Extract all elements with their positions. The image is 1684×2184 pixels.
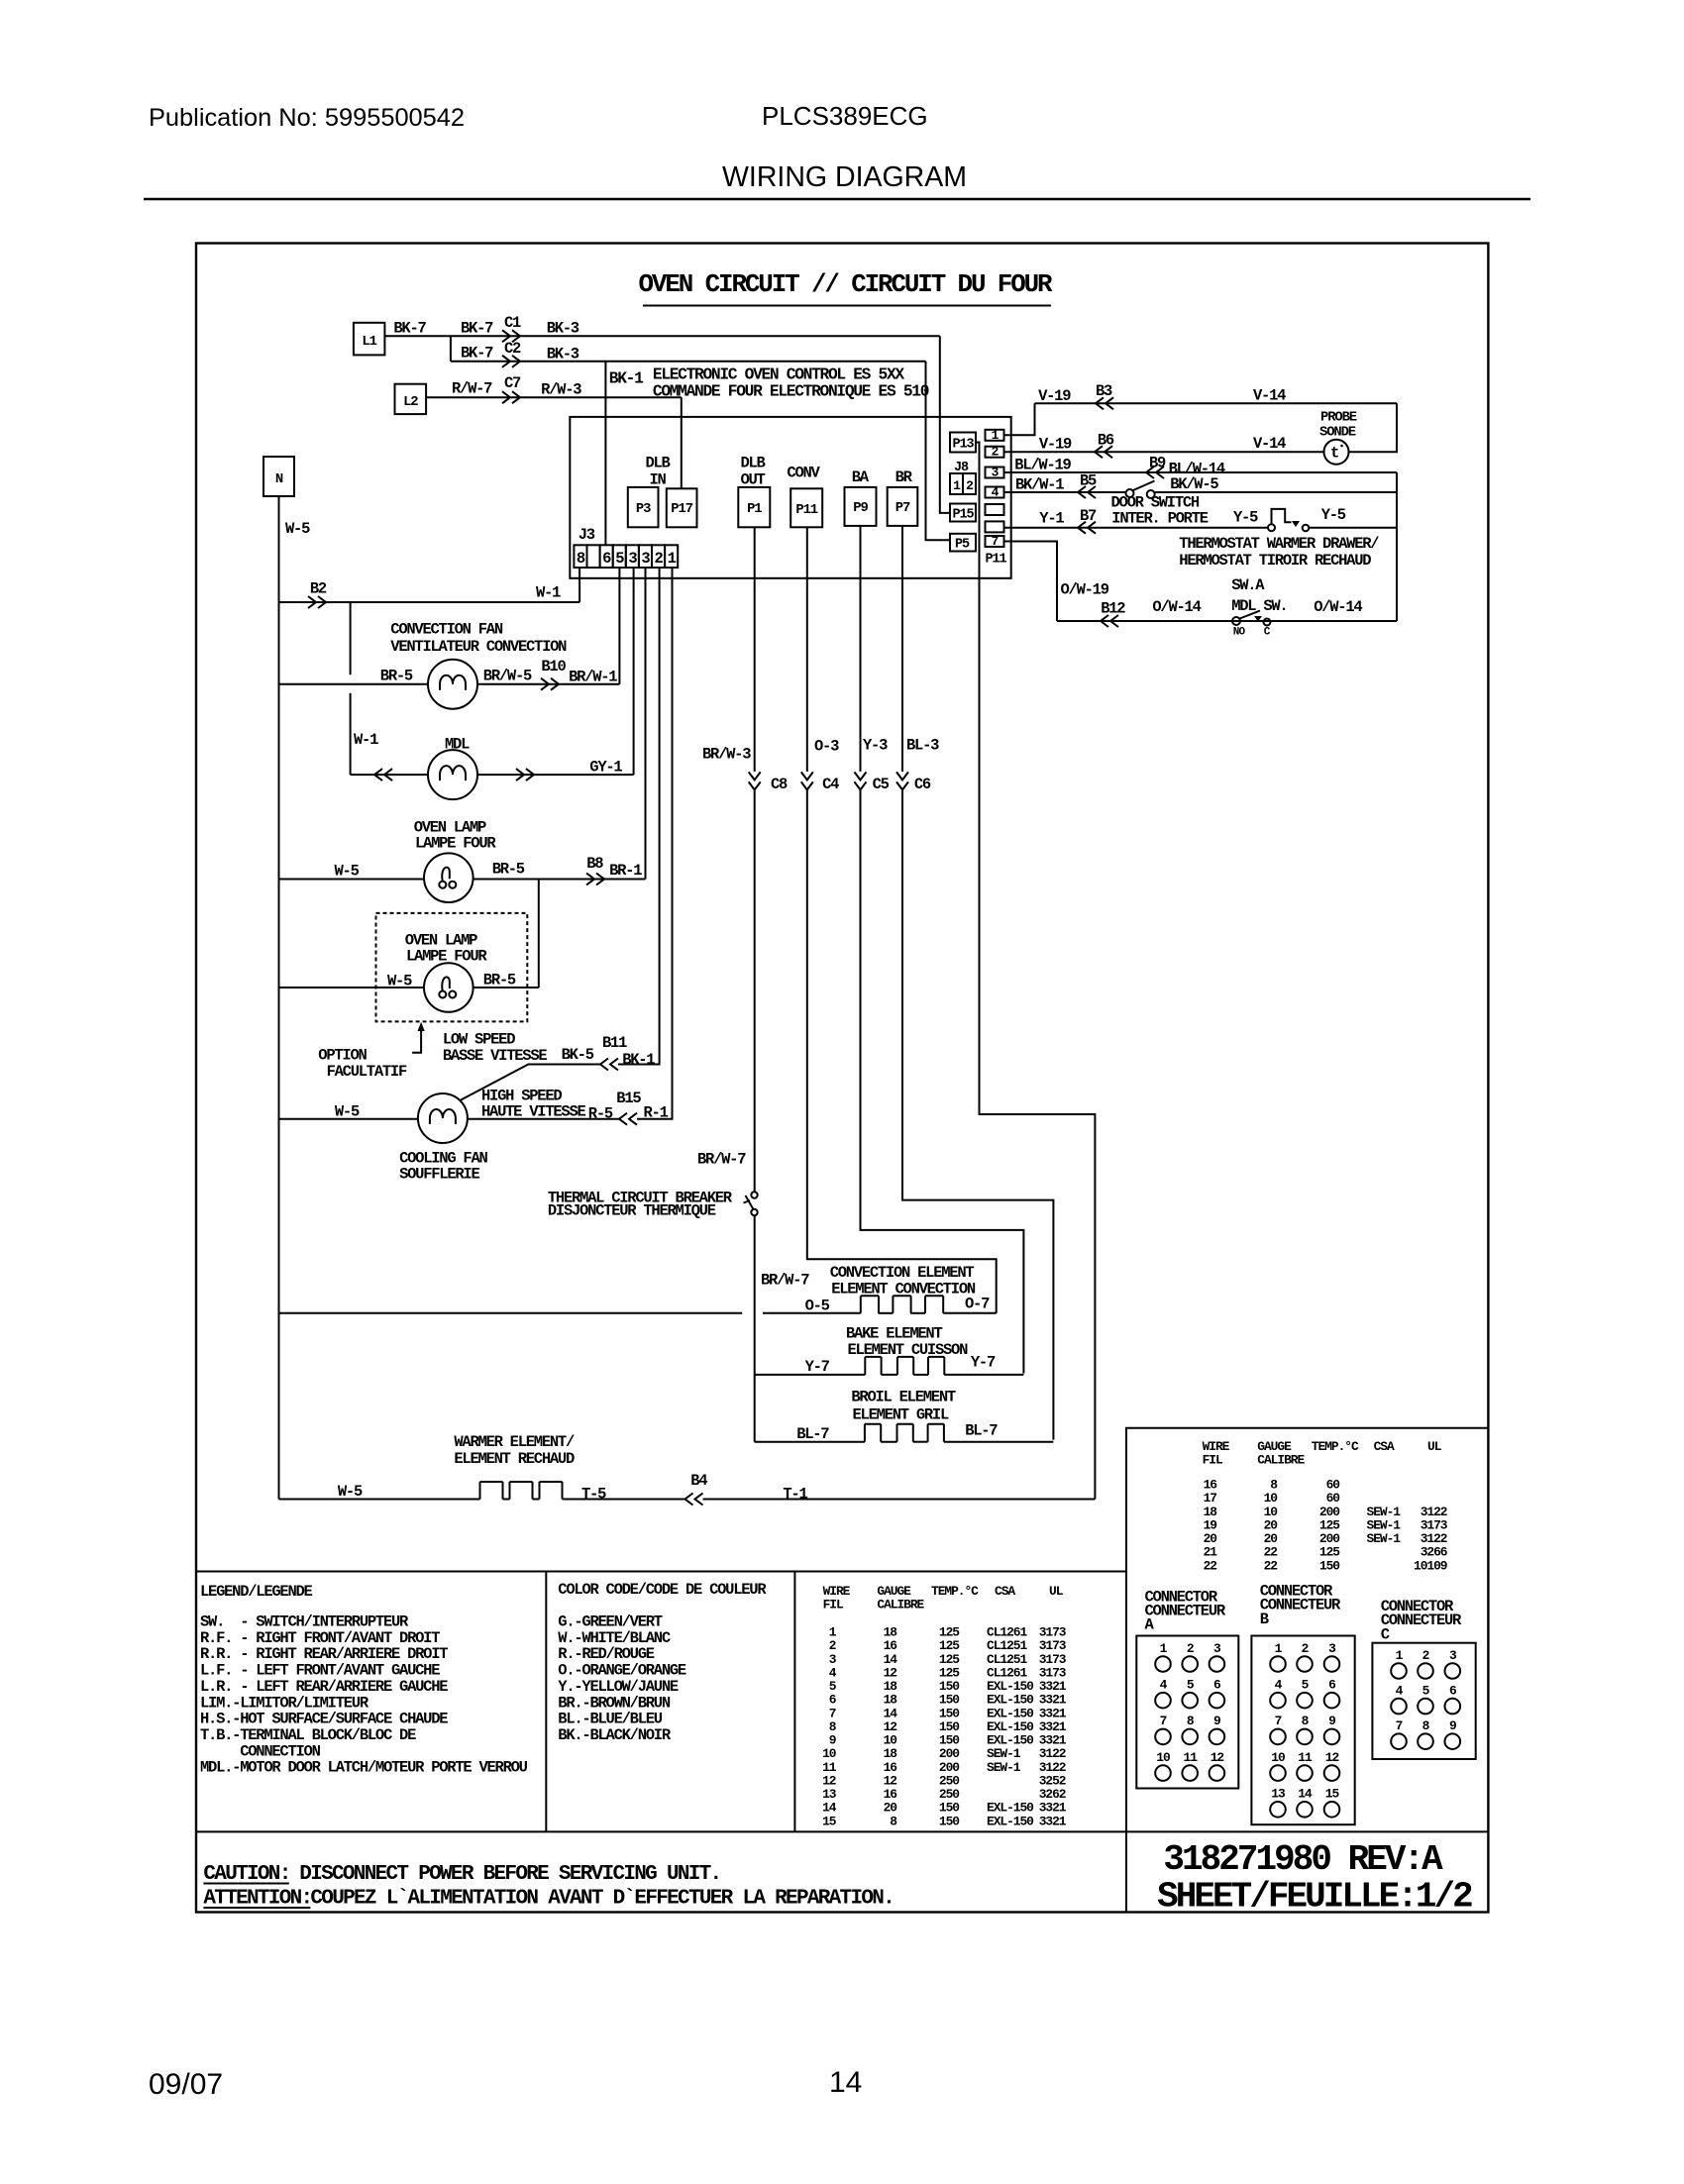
svg-text:318271980 REV:A: 318271980 REV:A [1163, 1839, 1443, 1880]
label BR/W-3 [702, 746, 751, 764]
label BAKE ELEMENT [846, 1325, 942, 1343]
svg-text:IN: IN [649, 471, 666, 489]
svg-text:10109: 10109 [1414, 1558, 1447, 1573]
label W-5 under N [285, 520, 310, 538]
svg-text:10: 10 [1271, 1750, 1285, 1765]
wire cooling fan to B15 [468, 1118, 619, 1120]
label V-14 (1) [1253, 387, 1286, 405]
svg-text:O/W-19: O/W-19 [1061, 581, 1109, 599]
wire P11 drop lower [807, 789, 997, 1312]
wire pin7 drop [1004, 542, 1058, 622]
wire low speed diagonal [461, 1065, 600, 1100]
label ELEMENT CUISSON [848, 1341, 969, 1359]
label BK-7 (3) [461, 345, 493, 363]
wire table 2 headers [1203, 1439, 1442, 1468]
svg-text:BR-1: BR-1 [609, 862, 642, 880]
svg-text:Publication No: 5995500542: Publication No: 5995500542 [149, 104, 465, 132]
footer date [149, 2068, 223, 2101]
svg-text:ELEMENT RECHAUD: ELEMENT RECHAUD [454, 1450, 575, 1468]
wire convection element left [763, 1312, 861, 1314]
svg-text:22: 22 [1264, 1558, 1278, 1573]
svg-text:C8: C8 [771, 776, 788, 793]
svg-text:CONNECTEUR: CONNECTEUR [1381, 1612, 1462, 1629]
svg-text:10: 10 [1156, 1750, 1170, 1765]
svg-text:B5: B5 [1080, 472, 1097, 490]
label DLB OUT [740, 455, 765, 489]
connector C7 [502, 374, 521, 403]
label BR-1 [609, 862, 642, 880]
label V-19 (2) [1039, 436, 1072, 454]
label O-5 [805, 1298, 830, 1315]
svg-text:W-5: W-5 [387, 973, 412, 990]
svg-text:7: 7 [1275, 1714, 1282, 1728]
label BL/W-14 [1169, 461, 1225, 478]
svg-text:CONVECTION FAN: CONVECTION FAN [390, 621, 503, 639]
svg-text:V-14: V-14 [1253, 387, 1286, 405]
svg-text:P1: P1 [747, 501, 762, 517]
label NO [1233, 627, 1246, 639]
label P11 [986, 553, 1007, 568]
wire bake element left [755, 1374, 866, 1376]
label BK/W-5 [1170, 475, 1218, 493]
svg-text:V-14: V-14 [1253, 435, 1286, 453]
wire pin1 to V-19 riser [1004, 403, 1035, 435]
wire BK-1 drop to J3-6 [604, 362, 606, 546]
wire W-5 to cooling fan [279, 1118, 419, 1120]
label CONNECTOR C [1381, 1598, 1462, 1643]
wire junction drop L1 to C2 line [450, 336, 452, 362]
wire P1 drop upper [754, 527, 756, 772]
label B2 [310, 580, 327, 598]
plug P17 [667, 488, 697, 527]
svg-text:O.-ORANGE/ORANGE: O.-ORANGE/ORANGE [558, 1662, 686, 1680]
wire table 2 rows [1204, 1478, 1448, 1574]
svg-text:P11: P11 [986, 553, 1007, 568]
label B4 [690, 1472, 707, 1490]
thermal circuit breaker CB1 [744, 1192, 758, 1215]
svg-text:3321: 3321 [1039, 1814, 1067, 1828]
svg-text:LOW SPEED: LOW SPEED [443, 1031, 515, 1049]
svg-text:9: 9 [1328, 1714, 1335, 1728]
svg-text:INTER. PORTE: INTER. PORTE [1111, 510, 1208, 528]
svg-text:Y-5: Y-5 [1233, 509, 1258, 527]
svg-text:O-3: O-3 [814, 738, 839, 756]
circuit title [639, 269, 1054, 299]
svg-text:BK/W-1: BK/W-1 [1015, 476, 1064, 494]
svg-text:14: 14 [829, 2066, 862, 2099]
wire convection element right [943, 1312, 997, 1314]
svg-text:B2: B2 [310, 580, 327, 598]
legend entries [200, 1613, 528, 1777]
svg-text:7: 7 [992, 534, 999, 549]
label CONVECTION FAN [390, 621, 503, 639]
motor MDL [428, 750, 477, 799]
svg-text:OUT: OUT [740, 471, 765, 489]
svg-text:R-5: R-5 [588, 1105, 613, 1123]
svg-text:W-1: W-1 [536, 584, 561, 602]
svg-text:CONNECTEUR: CONNECTEUR [1145, 1603, 1226, 1620]
svg-text:TEMP.°C: TEMP.°C [931, 1584, 979, 1599]
label SOUFFLERIE [399, 1166, 479, 1184]
label Y-7 right [971, 1354, 996, 1372]
svg-text:6: 6 [602, 550, 611, 568]
svg-text:BK-3: BK-3 [547, 320, 579, 338]
svg-text:12: 12 [1210, 1750, 1224, 1765]
label LOW SPEED [443, 1031, 515, 1049]
svg-text:DLB: DLB [645, 455, 670, 472]
label CAUTION line [203, 1863, 720, 1886]
label MDL SW. [1231, 597, 1287, 615]
svg-text:C: C [1381, 1625, 1390, 1643]
label O/W-14 right [1314, 598, 1362, 616]
wire P11 drop [806, 527, 808, 772]
label electronic oven control line1 [653, 365, 905, 384]
svg-text:PLCS389ECG: PLCS389ECG [762, 101, 928, 131]
label ELEMENT GRIL [853, 1406, 949, 1424]
wire T-1 run [703, 1499, 1096, 1501]
svg-text:BR-5: BR-5 [492, 861, 525, 879]
svg-text:THERMOSTAT WARMER DRAWER/: THERMOSTAT WARMER DRAWER/ [1179, 535, 1379, 553]
svg-text:SW.A: SW.A [1231, 576, 1265, 594]
svg-text:SOUFFLERIE: SOUFFLERIE [399, 1166, 479, 1184]
wire W-5 to convection fan [279, 683, 429, 685]
wire lamp2 right [474, 987, 539, 988]
svg-text:C5: C5 [873, 776, 890, 793]
plug P11 [790, 488, 822, 527]
legend section bottom border [196, 1830, 1488, 1832]
svg-text:2: 2 [655, 550, 664, 568]
svg-text:P9: P9 [853, 500, 868, 516]
svg-text:J3: J3 [579, 526, 595, 544]
svg-text:8: 8 [577, 550, 585, 568]
wire door switch to right bus [1155, 491, 1397, 493]
label CONNECTOR B [1260, 1583, 1341, 1628]
svg-text:B9: B9 [1149, 455, 1166, 472]
page header title WIRING DIAGRAM [722, 161, 967, 193]
label W-5 cooling fan [335, 1103, 360, 1121]
oven lamp DS2 [424, 963, 474, 1012]
svg-text:B12: B12 [1101, 600, 1125, 618]
label T-1 [783, 1486, 807, 1504]
wire MDL right [477, 774, 634, 776]
label FACULTATIF [327, 1063, 407, 1081]
svg-text:FACULTATIF: FACULTATIF [327, 1063, 407, 1081]
wire P9 drop [860, 526, 862, 772]
svg-text:W-5: W-5 [335, 863, 360, 881]
svg-text:11: 11 [1184, 1750, 1199, 1765]
connector B11 [600, 1034, 627, 1071]
svg-text:7: 7 [1396, 1718, 1403, 1733]
svg-text:SEW-1: SEW-1 [1367, 1531, 1402, 1546]
label CONV [787, 465, 820, 482]
connector B4 [685, 1494, 703, 1506]
wire warmer to B4 [563, 1499, 685, 1501]
connector B12 [1101, 600, 1125, 628]
svg-text:B6: B6 [1098, 432, 1114, 450]
plug P7 [888, 487, 918, 526]
svg-text:P13: P13 [952, 438, 974, 453]
svg-text:1: 1 [668, 550, 677, 568]
svg-text:BA: BA [852, 468, 870, 486]
label R/W-3 [541, 381, 581, 399]
label V-19 (1) [1038, 387, 1071, 405]
convection fan motor M1 [428, 660, 477, 709]
plug P1 [738, 487, 770, 527]
label C [1264, 627, 1271, 639]
label DLB IN [645, 455, 670, 489]
svg-text:COUPEZ L`ALIMENTATION AVANT D`: COUPEZ L`ALIMENTATION AVANT D`EFFECTUER … [310, 1888, 894, 1911]
label T-5 [581, 1486, 606, 1504]
bake heating element [865, 1357, 944, 1375]
color/table divider [793, 1572, 795, 1832]
svg-text:15: 15 [822, 1814, 837, 1828]
label BR [895, 468, 913, 486]
connector B pin diagram [1251, 1636, 1354, 1825]
wire broil element right [944, 1441, 1054, 1443]
svg-text:B10: B10 [541, 658, 566, 676]
label CONVECTION ELEMENT [830, 1264, 975, 1282]
connector A pin diagram [1136, 1636, 1238, 1789]
svg-text:W-5: W-5 [335, 1103, 360, 1121]
svg-text:150: 150 [939, 1814, 959, 1828]
svg-text:LIM.-LIMITOR/LIMITEUR: LIM.-LIMITOR/LIMITEUR [200, 1694, 369, 1712]
legend section top border [196, 1571, 1126, 1573]
wire pin3 BL/W to right bus [1004, 471, 1398, 473]
svg-text:BR: BR [895, 468, 913, 486]
label BK-7 (2) [461, 320, 493, 338]
svg-text:W-5: W-5 [285, 520, 310, 538]
svg-text:BAKE ELEMENT: BAKE ELEMENT [846, 1325, 942, 1343]
svg-text:2: 2 [1187, 1641, 1194, 1656]
label BASSE VITESSE [443, 1047, 547, 1065]
page header model number [762, 101, 928, 131]
svg-text:B7: B7 [1080, 507, 1097, 525]
svg-text:2: 2 [1302, 1641, 1309, 1656]
label J3 [579, 526, 595, 544]
footer page number [829, 2066, 862, 2099]
label BK-1 [609, 369, 644, 388]
svg-text:FIL: FIL [823, 1598, 844, 1612]
cooling fan motor M2 [418, 1093, 468, 1143]
wire N bus vertical [278, 496, 280, 1500]
svg-text:BR/W-3: BR/W-3 [702, 746, 751, 764]
wire bake to broil drop [754, 1375, 756, 1442]
label HIGH SPEED [481, 1088, 562, 1105]
svg-text:CONNECTION: CONNECTION [200, 1742, 321, 1760]
broil heating element [865, 1424, 944, 1442]
connector C1 [502, 314, 521, 342]
svg-text:BK-7: BK-7 [393, 320, 426, 338]
svg-text:BK-7: BK-7 [461, 320, 493, 338]
label HAUTE VITESSE [481, 1103, 585, 1121]
label BR-5 lamp2 [483, 972, 516, 989]
svg-text:R.F. - RIGHT FRONT/AVANT DROIT: R.F. - RIGHT FRONT/AVANT DROIT [200, 1629, 440, 1647]
svg-text:5: 5 [615, 550, 624, 568]
label BA [852, 468, 870, 486]
label BL-7 left [796, 1425, 829, 1443]
wire B8 riser to J3-3b [645, 568, 647, 880]
svg-text:W-1: W-1 [354, 731, 378, 749]
svg-text:UL: UL [1427, 1439, 1442, 1454]
electronic oven control box U1 [570, 417, 1010, 578]
plug P3 [628, 487, 659, 527]
oven lamp DS1 [424, 853, 474, 902]
svg-text:BL-7: BL-7 [796, 1425, 829, 1443]
probe sensor [1324, 440, 1349, 465]
svg-text:DLB: DLB [740, 455, 765, 472]
svg-text:CONVECTION ELEMENT: CONVECTION ELEMENT [830, 1264, 975, 1282]
wire V-19/V-14 probe top [1035, 402, 1398, 404]
label BL-7 right [965, 1422, 998, 1440]
svg-text:BR-5: BR-5 [483, 972, 516, 989]
label BR/W-7 upper [697, 1151, 746, 1169]
main diagram border [196, 244, 1488, 1913]
connector C8 [749, 772, 788, 793]
svg-text:DISCONNECT POWER BEFORE SERVIC: DISCONNECT POWER BEFORE SERVICING UNIT. [299, 1863, 720, 1886]
svg-text:R/W-3: R/W-3 [541, 381, 581, 399]
label ELEMENT CONVECTION [831, 1281, 976, 1299]
svg-text:BR/W-1: BR/W-1 [569, 669, 617, 686]
connector B10 [541, 658, 566, 690]
svg-text:FIL: FIL [1203, 1453, 1223, 1468]
wire table 1 headers [823, 1584, 1064, 1612]
svg-text:13: 13 [1271, 1787, 1286, 1802]
wire MDL riser to J3-3a [633, 568, 635, 775]
svg-text:H.S.-HOT SURFACE/SURFACE CHAUD: H.S.-HOT SURFACE/SURFACE CHAUDE [200, 1711, 448, 1728]
svg-text:MDL.-MOTOR DOOR LATCH/MOTEUR P: MDL.-MOTOR DOOR LATCH/MOTEUR PORTE VERRO… [200, 1759, 528, 1777]
svg-text:BK-3: BK-3 [547, 346, 579, 364]
label BR-5 lamp1 [492, 861, 525, 879]
label sheet number [1157, 1877, 1472, 1918]
svg-text:MDL SW.: MDL SW. [1231, 597, 1287, 615]
wire B15 to J3-1 riser [637, 568, 673, 1119]
svg-text:L.R. - LEFT REAR/ARRIERE GAUCH: L.R. - LEFT REAR/ARRIERE GAUCHE [200, 1678, 448, 1696]
svg-text:BL/W-19: BL/W-19 [1014, 457, 1071, 474]
label BR/W-5 [483, 668, 532, 685]
svg-text:PROBE: PROBE [1320, 410, 1357, 426]
svg-text:BR.-BROWN/BRUN: BR.-BROWN/BRUN [558, 1694, 671, 1712]
connector B3 [1096, 382, 1113, 409]
wire P7 drop lower [902, 789, 1053, 1439]
svg-text:BK/W-5: BK/W-5 [1170, 475, 1218, 493]
svg-text:WARMER ELEMENT/: WARMER ELEMENT/ [454, 1433, 575, 1451]
svg-text:DISJONCTEUR THERMIQUE: DISJONCTEUR THERMIQUE [548, 1202, 716, 1220]
label BK-5 [562, 1046, 594, 1064]
svg-text:SONDE: SONDE [1319, 425, 1356, 441]
svg-text:CSA: CSA [995, 1584, 1015, 1599]
svg-text:SW. - SWITCH/INTERRUPTEUR: SW. - SWITCH/INTERRUPTEUR [200, 1613, 409, 1631]
header rule [144, 198, 1530, 200]
label electronic oven control line2 [653, 382, 929, 401]
terminal L1 [354, 323, 385, 356]
svg-text:R.R. - RIGHT REAR/ARRIERE DROI: R.R. - RIGHT REAR/ARRIERE DROIT [200, 1645, 448, 1663]
wire W-5 to oven lamp [279, 879, 425, 881]
wire MDL left [351, 774, 428, 776]
label W-5 lamp2 [387, 973, 412, 990]
label O/W-19 [1061, 581, 1109, 599]
connector C5 [855, 772, 890, 793]
wire W-5 to oven lamp 2 [279, 987, 425, 988]
label SW.A [1231, 576, 1265, 594]
svg-text:C2: C2 [504, 340, 521, 358]
legend/color divider [545, 1572, 547, 1832]
label BK/W-1 [1015, 476, 1064, 494]
svg-text:C1: C1 [504, 314, 521, 332]
svg-text:TEMP.°C: TEMP.°C [1312, 1439, 1359, 1454]
label Y-7 left [805, 1358, 830, 1376]
svg-text:C6: C6 [914, 776, 931, 793]
svg-text:B3: B3 [1096, 382, 1112, 400]
label BL-3 [906, 737, 939, 755]
wire probe right drop [1349, 403, 1398, 452]
svg-text:SHEET/FEUILLE:1/2: SHEET/FEUILLE:1/2 [1157, 1877, 1472, 1918]
connector B9 [1146, 455, 1166, 479]
switch SW.A MDL [1232, 611, 1271, 626]
connector B15 [616, 1090, 641, 1125]
wire conv fan to B10 [477, 683, 619, 685]
label COLOR CODE/CODE DE COULEUR [558, 1581, 767, 1599]
svg-text:G.-GREEN/VERT: G.-GREEN/VERT [558, 1613, 662, 1631]
svg-text:B: B [1260, 1611, 1269, 1628]
svg-text:BROIL ELEMENT: BROIL ELEMENT [851, 1389, 955, 1406]
wire table 1 rows [822, 1625, 1067, 1829]
svg-text:BL.-BLUE/BLEU: BL.-BLUE/BLEU [558, 1711, 662, 1728]
svg-text:T-5: T-5 [581, 1486, 606, 1504]
label BR-5 conv fan [380, 668, 413, 685]
label W-1 at J3 [536, 584, 561, 602]
wire R/W-3 drop to P17 [681, 397, 683, 488]
svg-text:BR/W-7: BR/W-7 [761, 1272, 809, 1290]
svg-text:O/W-14: O/W-14 [1152, 598, 1201, 616]
label COOLING FAN [399, 1150, 487, 1168]
svg-text:P11: P11 [795, 502, 817, 518]
svg-text:L1: L1 [362, 334, 376, 350]
svg-text:BR-5: BR-5 [380, 668, 413, 685]
label BK-7 (1) [393, 320, 426, 338]
wire broil element left [755, 1441, 865, 1443]
svg-text:COLOR CODE/CODE DE COULEUR: COLOR CODE/CODE DE COULEUR [558, 1581, 767, 1599]
svg-text:11: 11 [1298, 1750, 1313, 1765]
label DISJONCTEUR THERMIQUE [548, 1202, 716, 1220]
svg-text:LEGEND/LEGENDE: LEGEND/LEGENDE [200, 1583, 313, 1601]
svg-text:BK-5: BK-5 [562, 1046, 594, 1064]
door switch [1126, 481, 1155, 499]
svg-text:P5: P5 [955, 538, 970, 553]
svg-text:T-1: T-1 [783, 1486, 807, 1504]
label BK-3 (1) [547, 320, 579, 338]
svg-text:B15: B15 [616, 1090, 641, 1107]
svg-text:Y-7: Y-7 [971, 1354, 996, 1372]
svg-text:P15: P15 [952, 508, 974, 523]
wire P1 drop lower [754, 789, 756, 1192]
plug P13 [950, 433, 976, 453]
label Y-5 left [1233, 509, 1258, 527]
svg-text:Y-7: Y-7 [805, 1358, 830, 1376]
label O-7 [965, 1296, 990, 1313]
wire B10 riser to J3-5 [618, 568, 620, 684]
svg-text:15: 15 [1325, 1787, 1340, 1802]
connector B7 [1078, 507, 1097, 534]
svg-text:LAMPE FOUR: LAMPE FOUR [415, 835, 496, 853]
convection heating element [861, 1296, 943, 1313]
svg-text:R/W-7: R/W-7 [452, 380, 492, 398]
wire R/W-7 L2 to C7 [426, 396, 682, 398]
svg-text:O/W-14: O/W-14 [1314, 598, 1362, 616]
wire pin6 Y-1 to thermostat [1004, 527, 1269, 529]
svg-text:EXL-150: EXL-150 [987, 1814, 1033, 1828]
svg-text:NO: NO [1233, 627, 1246, 639]
svg-text:BR/W-5: BR/W-5 [483, 668, 532, 685]
